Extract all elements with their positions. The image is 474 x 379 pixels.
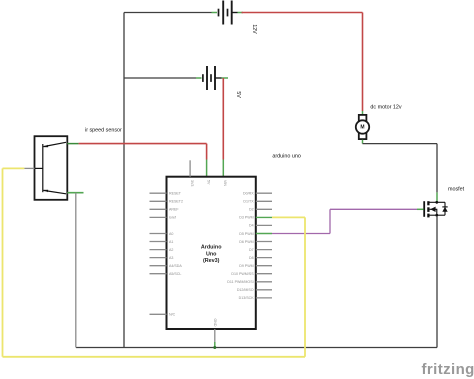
svg-text:RESET2: RESET2 — [169, 200, 183, 204]
svg-text:12V: 12V — [251, 24, 257, 34]
svg-text:GND: GND — [213, 319, 217, 327]
svg-text:Arduino: Arduino — [201, 245, 222, 251]
svg-text:5V: 5V — [206, 180, 210, 185]
svg-text:D5 PWM: D5 PWM — [239, 232, 253, 236]
svg-text:D9 PWM: D9 PWM — [239, 264, 253, 268]
svg-text:D0/RX: D0/RX — [243, 192, 254, 196]
svg-text:5V: 5V — [235, 91, 241, 98]
pin VIN top — [223, 180, 227, 186]
svg-text:ir speed sensor: ir speed sensor — [85, 127, 122, 133]
op-amp U1 arduino uno box — [167, 177, 256, 329]
svg-text:D3 PWM: D3 PWM — [239, 216, 253, 220]
pin 3V3 top — [190, 160, 194, 186]
left pins group — [150, 193, 167, 314]
svg-text:A3: A3 — [169, 256, 173, 260]
svg-text:arduino uno: arduino uno — [272, 153, 300, 159]
wire battery2 negative to left rail — [124, 77, 202, 79]
svg-text:A4/SDA: A4/SDA — [169, 264, 182, 268]
svg-text:D13/SCK: D13/SCK — [239, 296, 255, 300]
svg-text:dc motor 12v: dc motor 12v — [370, 104, 401, 110]
right pin labels — [227, 192, 254, 301]
svg-text:D7: D7 — [249, 248, 254, 252]
wire battery2 positive to arduino VIN (red) — [222, 78, 224, 177]
svg-text:A1: A1 — [169, 240, 173, 244]
svg-text:D11 PWM/MOSI: D11 PWM/MOSI — [227, 280, 253, 284]
wire mosfet source to ground bus — [436, 217, 438, 348]
wire battery1 negative to left rail — [124, 12, 217, 14]
battery BAT1 12V — [219, 1, 244, 25]
svg-text:N/C: N/C — [169, 313, 176, 317]
svg-text:D2: D2 — [249, 208, 254, 212]
wire sensor left pin — [24, 167, 34, 169]
svg-text:D6 PWM: D6 PWM — [239, 240, 253, 244]
svg-text:D12/MISO: D12/MISO — [237, 288, 254, 292]
wire sensor gnd — [67, 193, 83, 348]
svg-text:M: M — [360, 125, 364, 131]
wire mosfet gate (purple) — [272, 209, 424, 233]
svg-text:AREF: AREF — [169, 208, 179, 212]
right pins group — [256, 193, 272, 298]
svg-text:D4: D4 — [249, 224, 254, 228]
svg-text:fritzing: fritzing — [422, 361, 474, 378]
left pin labels — [169, 192, 183, 317]
svg-text:D1/TX: D1/TX — [243, 200, 254, 204]
wire battery1 positive to motor (red) — [242, 13, 363, 115]
svg-text:A0: A0 — [169, 232, 173, 236]
wire ground bus — [76, 347, 437, 349]
wire left vertical rail — [123, 13, 125, 348]
pin D5 green — [256, 233, 272, 235]
svg-text:A2: A2 — [169, 248, 173, 252]
ir speed sensor U2 — [35, 136, 68, 200]
svg-text:RESET: RESET — [169, 192, 182, 196]
svg-text:Uno: Uno — [206, 251, 217, 257]
svg-text:3V3: 3V3 — [190, 180, 194, 186]
svg-text:D10 PWM/SS: D10 PWM/SS — [231, 272, 254, 276]
svg-text:A5/SCL: A5/SCL — [169, 272, 181, 276]
motor M1 — [356, 115, 369, 139]
pin GND bottom — [213, 319, 217, 350]
wire sensor signal (yellow loop) — [3, 168, 306, 356]
battery BAT2 5V — [203, 66, 228, 90]
svg-text:mosfet: mosfet — [448, 186, 465, 192]
wire sensor vcc to arduino 5V (red) — [67, 144, 206, 177]
transistor Q1 mosfet — [424, 201, 448, 217]
svg-text:(Rev3): (Rev3) — [203, 258, 220, 264]
pin 5V top — [206, 180, 210, 185]
wire motor negative to mosfet drain — [363, 140, 438, 202]
svg-text:VIN: VIN — [223, 180, 227, 186]
svg-text:D8: D8 — [249, 256, 254, 260]
pin D3 green — [256, 216, 272, 218]
svg-text:ioref: ioref — [169, 216, 176, 220]
